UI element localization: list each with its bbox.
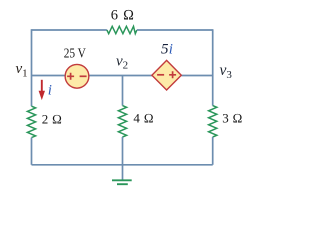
voltage source 25V circle (65, 64, 89, 88)
svg-text:i: i (169, 41, 173, 57)
label 4 ohm (133, 111, 154, 126)
wire middle row: 25V source to 5i source (through node v2) (89, 75, 152, 77)
wire top from left corner to 6-ohm resistor (32, 29, 107, 31)
label 6 ohm (111, 7, 135, 23)
resistor 3ohm zigzag (209, 106, 217, 137)
svg-text:25 V: 25 V (64, 46, 86, 61)
ground (112, 180, 132, 184)
node v3 label (220, 62, 233, 81)
label i (current) (48, 83, 52, 99)
resistor 6ohm zigzag (107, 26, 137, 33)
svg-text:4 Ω: 4 Ω (133, 111, 154, 126)
svg-text:i: i (48, 83, 52, 99)
node v2 label (116, 53, 128, 71)
label 25 V (64, 46, 86, 61)
svg-text:3 Ω: 3 Ω (222, 111, 243, 126)
svg-text:2 Ω: 2 Ω (42, 112, 63, 127)
wire right vertical upper segment (212, 29, 214, 105)
wire left vertical upper segment (31, 29, 33, 106)
wire right vertical lower segment (212, 137, 214, 165)
wire middle row: 5i source to node v3 (181, 75, 212, 77)
wire middle row: node v1 to 25V source (32, 75, 66, 77)
wire top from 6-ohm resistor to right corner (137, 29, 213, 31)
wire left vertical lower segment (31, 138, 33, 165)
wire middle vertical from node v2 down to 4-ohm (122, 76, 124, 106)
svg-text:5: 5 (161, 41, 169, 57)
wire middle vertical from 4-ohm to bottom wire (122, 137, 124, 165)
dependent source 5i diamond (152, 60, 181, 90)
svg-text:6 Ω: 6 Ω (111, 7, 135, 23)
wire bottom from left corner to right corner (32, 164, 213, 166)
resistor 2ohm zigzag (27, 106, 35, 137)
resistor 4ohm zigzag (118, 106, 126, 137)
label 3 ohm (222, 111, 243, 126)
label 2 ohm (42, 112, 63, 127)
node v1 label (16, 61, 28, 79)
current arrow i at node v1 (39, 80, 45, 100)
label 5i (161, 41, 173, 57)
wire ground stem (122, 165, 124, 180)
